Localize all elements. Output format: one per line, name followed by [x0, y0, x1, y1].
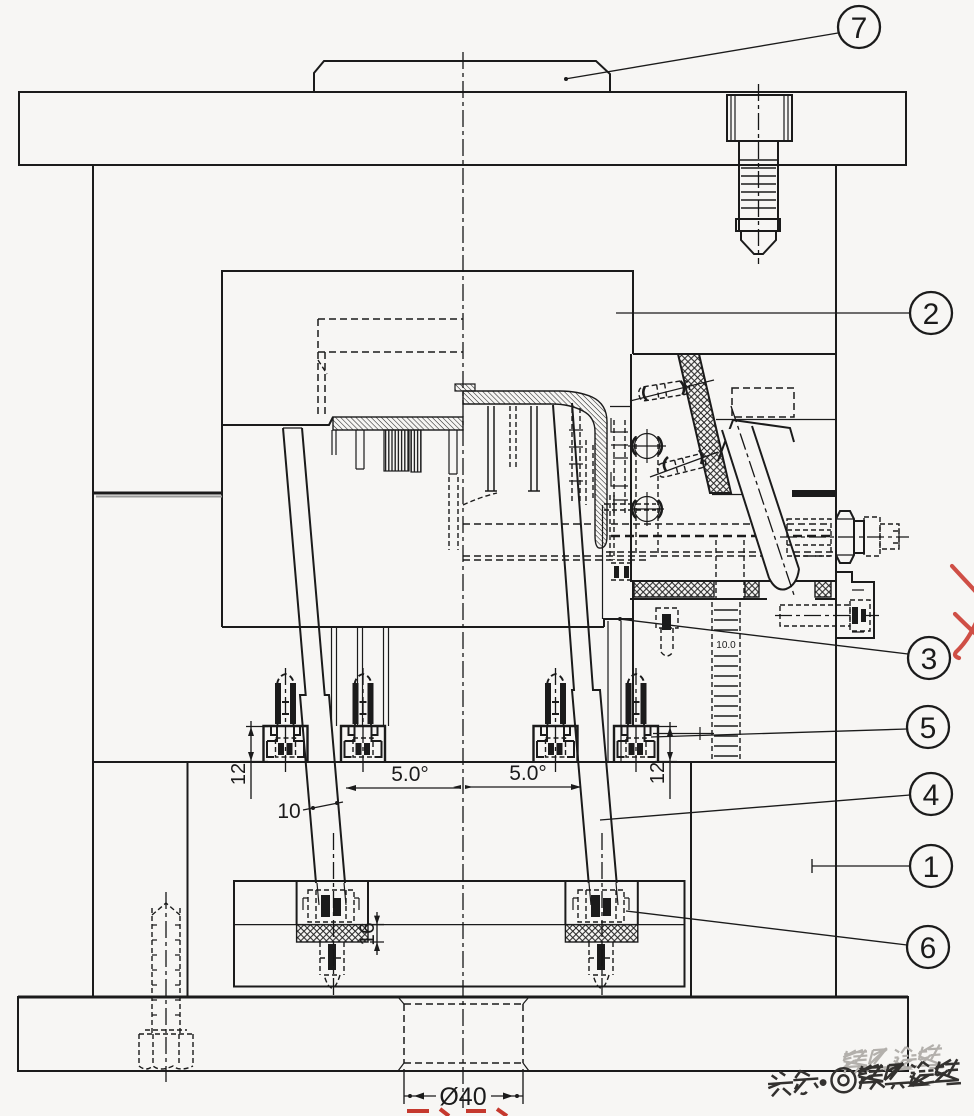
svg-text:10: 10 [277, 800, 300, 823]
svg-text:5: 5 [920, 712, 937, 745]
svg-text:5.0°: 5.0° [509, 762, 547, 785]
svg-text:Ø40: Ø40 [439, 1083, 486, 1111]
svg-text:5.0°: 5.0° [391, 763, 429, 786]
svg-text:12: 12 [647, 762, 669, 784]
svg-text:4: 4 [923, 779, 940, 812]
svg-text:12: 12 [228, 763, 250, 785]
svg-text:3: 3 [921, 643, 938, 676]
svg-text:2: 2 [923, 298, 940, 331]
svg-text:16: 16 [356, 922, 379, 945]
svg-text:6: 6 [920, 932, 937, 965]
svg-text:7: 7 [851, 12, 868, 45]
svg-text:10.0: 10.0 [716, 640, 736, 651]
svg-text:1: 1 [923, 851, 940, 884]
